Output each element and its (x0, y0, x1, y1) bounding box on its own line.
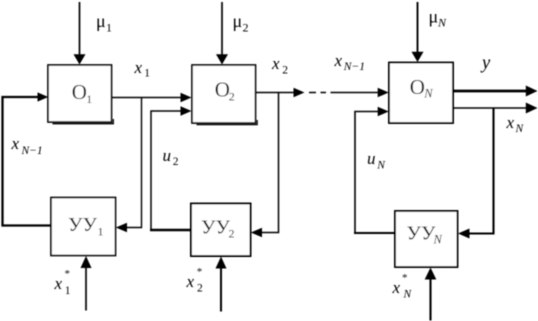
block O2 (192, 65, 256, 123)
svg-text:x: x (506, 113, 515, 132)
svg-text:2: 2 (173, 156, 179, 168)
svg-text:y: y (480, 54, 491, 74)
svg-text:УУ: УУ (201, 217, 231, 239)
svg-text:N: N (515, 123, 525, 135)
svg-text:μ: μ (429, 7, 439, 27)
wire x1 branch down to UU1 (127, 98, 142, 228)
svg-text:x: x (334, 51, 343, 70)
label x1 (134, 58, 151, 80)
svg-text:u: u (163, 146, 172, 165)
arrowhead into UU1 right (116, 223, 127, 233)
wire mu2 input arrow line (221, 2, 223, 55)
svg-text:2: 2 (229, 227, 235, 241)
wire xN* bottom arrow into UUN (429, 280, 431, 321)
svg-text:N: N (423, 87, 433, 101)
svg-text:2: 2 (229, 90, 235, 104)
label UU2 (201, 217, 235, 241)
svg-text:УУ: УУ (68, 214, 98, 236)
svg-text:2: 2 (197, 283, 203, 295)
arrowhead mu1 into O1 top (74, 54, 86, 64)
label x1* (54, 268, 71, 297)
wire feedback loop UU1 to O1 (x_N-1) (3, 97, 52, 226)
svg-text:1: 1 (98, 225, 104, 239)
arrowhead uN into ON left (378, 107, 389, 117)
arrowhead muN into ON top (412, 52, 424, 62)
block O2 shadow (197, 120, 258, 125)
arrowhead x2 mid (294, 88, 305, 98)
label x_N-1 top (334, 51, 365, 73)
svg-text:N: N (433, 233, 443, 247)
svg-text:N: N (437, 16, 447, 30)
arrowhead mu2 into O2 top (216, 54, 228, 64)
label mu2 (233, 11, 249, 35)
svg-text:*: * (402, 272, 408, 284)
label xN right (506, 113, 525, 135)
label x2 (271, 54, 288, 77)
svg-text:*: * (197, 266, 203, 278)
svg-text:*: * (65, 268, 71, 280)
label ON (410, 75, 434, 101)
label u2 (163, 146, 179, 168)
svg-text:μ: μ (96, 11, 106, 31)
label x_N-1 left (11, 134, 43, 157)
arrowhead into UUN right (458, 229, 470, 239)
svg-text:N: N (376, 160, 386, 172)
wire x1: O1 output to O2 input (112, 97, 182, 99)
block UU1 (51, 198, 116, 256)
svg-text:u: u (367, 149, 376, 168)
arrowhead x1* into UU1 bottom (81, 256, 92, 268)
label y (480, 54, 491, 74)
wire muN input arrow line (417, 2, 419, 53)
arrowhead xN output (526, 103, 538, 114)
svg-text:О: О (410, 75, 425, 99)
block O1 (48, 65, 112, 122)
arrowhead xN* into UUN bottom (425, 268, 437, 280)
label O1 (72, 80, 93, 106)
wire xN output (453, 107, 527, 109)
wire mu1 input arrow line (79, 2, 81, 55)
svg-text:x: x (54, 274, 63, 293)
svg-text:1: 1 (65, 285, 71, 297)
wire dashed segment (309, 92, 326, 94)
wire y output thick (453, 90, 527, 93)
svg-text:N: N (403, 289, 413, 301)
wire x1* bottom arrow into UU1 (85, 268, 87, 311)
wire xN branch down to UUN (469, 109, 494, 234)
wire UUN left thick link (354, 232, 395, 234)
svg-text:μ: μ (233, 11, 243, 31)
block UUN (395, 211, 458, 267)
block ON (389, 63, 453, 124)
label UUN (407, 223, 443, 247)
svg-text:x: x (134, 58, 143, 77)
wire uN: UUN up into ON (355, 112, 379, 234)
wire u2: UU2 up into O2 (151, 111, 182, 230)
block UU2 (191, 204, 251, 257)
arrowhead x_N-1 into ON left (378, 88, 389, 98)
svg-text:x: x (186, 272, 195, 291)
wire x2 branch down to UU2 (262, 93, 279, 233)
arrowhead into O1 left (38, 92, 49, 101)
label xN* (392, 272, 413, 301)
wire x2: O2 output (256, 92, 294, 94)
svg-text:x: x (11, 134, 20, 153)
svg-text:О: О (72, 80, 87, 104)
label UU1 (68, 214, 104, 239)
label muN (429, 7, 448, 30)
label mu1 (96, 11, 112, 35)
svg-text:УУ: УУ (407, 223, 437, 245)
svg-text:x: x (271, 54, 280, 73)
svg-text:1: 1 (86, 92, 92, 106)
block O1 shadow (53, 119, 114, 124)
label uN (367, 149, 386, 172)
arrowhead x1 into O2 left (181, 93, 192, 103)
svg-text:О: О (215, 78, 230, 102)
arrowhead x2* into UU2 bottom (216, 257, 227, 269)
arrowhead y output (526, 86, 538, 97)
arrowhead u2 into O2 left (181, 106, 192, 116)
label x2* (186, 266, 204, 295)
wire x2* bottom arrow into UU2 (220, 269, 222, 312)
svg-text:x: x (392, 278, 401, 297)
svg-text:1: 1 (106, 21, 112, 35)
svg-text:N−1: N−1 (343, 61, 365, 73)
svg-text:2: 2 (243, 21, 249, 35)
wire UU2 left thick link (150, 229, 191, 231)
arrowhead into UU2 right (251, 228, 262, 238)
label O2 (215, 78, 235, 104)
wire x_N-1 into ON (331, 92, 379, 94)
svg-text:N−1: N−1 (21, 145, 43, 157)
svg-text:1: 1 (144, 68, 150, 80)
svg-text:2: 2 (282, 65, 288, 77)
